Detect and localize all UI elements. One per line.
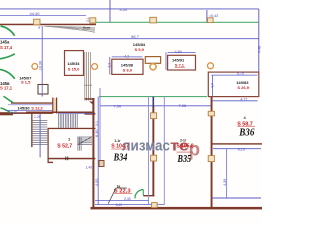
svg-text:S 15,0: S 15,0 — [68, 67, 80, 72]
svg-text:S 9,0: S 9,0 — [123, 67, 133, 72]
window W1 — [34, 19, 40, 25]
window x211 lower — [208, 156, 214, 162]
witness line x207 — [206, 10, 208, 22]
dimension line y39 — [0, 38, 259, 40]
svg-text:лизмас: лизмас — [122, 138, 170, 155]
stair upper flight treads — [59, 114, 78, 128]
stair lower flight treads — [78, 137, 93, 151]
jamb ticks — [65, 157, 67, 161]
dim line under wall — [8, 104, 52, 106]
room box 145/34 — [65, 51, 84, 76]
vert dim x166 — [165, 52, 167, 70]
svg-text:S 105,8: S 105,8 — [176, 143, 193, 149]
svg-text:1-1г: 1-1г — [114, 139, 121, 143]
door swing mid-left lower — [0, 69, 15, 78]
toilet bowl — [150, 64, 156, 70]
svg-text:145/34: 145/34 — [67, 61, 80, 66]
svg-text:В36: В36 — [238, 128, 254, 139]
left wall end piece — [0, 112, 13, 115]
svg-text:S 58,7: S 58,7 — [237, 122, 253, 128]
svg-text:Асик: Асик — [83, 26, 91, 30]
svg-text:4,59: 4,59 — [175, 50, 182, 54]
bottom thick wall — [91, 207, 263, 210]
dim 4.77 — [213, 100, 258, 102]
witness x148.5 — [148, 97, 150, 205]
svg-text:96,7: 96,7 — [131, 34, 140, 39]
vert dim x109.8 — [109, 57, 111, 75]
svg-text:4,7: 4,7 — [210, 83, 214, 88]
toilet cistern — [145, 57, 160, 64]
stair cut diagonal — [78, 137, 92, 145]
dim line y200.5 — [95, 200, 149, 202]
window W2 — [90, 18, 96, 23]
1a underline — [117, 187, 128, 189]
witness x226.6 — [226, 149, 228, 198]
svg-text:18,30: 18,30 — [39, 61, 43, 71]
svg-text:S 1,5: S 1,5 — [21, 80, 31, 85]
svg-text:44.40: 44.40 — [30, 11, 41, 16]
corridor wall piece upper — [85, 98, 95, 100]
vert dim x212.6 — [212, 75, 214, 96]
window x153 lower — [151, 155, 157, 161]
corridor wall piece lower — [85, 113, 96, 115]
dimension line 44.40 y15 — [0, 14, 86, 16]
svg-text:2,20: 2,20 — [11, 110, 17, 114]
svg-text:1,40: 1,40 — [86, 166, 93, 170]
partition wall x153 — [152, 106, 154, 196]
green corridor line — [99, 96, 207, 98]
svg-text:S 17,1: S 17,1 — [0, 86, 13, 91]
svg-text:2-1г: 2-1г — [180, 139, 187, 143]
wall stub corner — [48, 162, 54, 163]
column ring right — [208, 63, 214, 69]
window W3 — [150, 17, 157, 23]
lintel hatch wedge — [44, 26, 95, 33]
svg-text:4.20: 4.20 — [120, 7, 129, 12]
svg-text:S 17,4: S 17,4 — [0, 45, 13, 50]
window x211 upper — [208, 111, 214, 116]
partition top witness — [152, 97, 154, 107]
svg-text:S 22,3: S 22,3 — [114, 189, 132, 195]
door swing top-left — [1, 26, 15, 36]
room box 145/38 — [112, 59, 143, 74]
dim line left bottom — [5, 109, 52, 111]
stair inner wall — [48, 128, 49, 163]
svg-text:6,79: 6,79 — [237, 72, 244, 76]
stair top wall — [26, 112, 94, 114]
stair left wall — [31, 112, 32, 147]
dim 4.2 over 145/38 — [112, 56, 143, 58]
witness line x110 — [109, 0, 111, 22]
svg-text:145а: 145а — [0, 39, 10, 44]
svg-text:145/30: 145/30 — [17, 105, 30, 110]
vertical dim x42 — [41, 26, 43, 97]
svg-text:6,19: 6,19 — [238, 147, 245, 151]
witness through shaft — [41, 85, 43, 97]
window x153 upper — [151, 113, 157, 119]
left lower walls — [11, 102, 53, 103]
witness x164.3 — [163, 97, 165, 205]
svg-text:S 52,7: S 52,7 — [57, 144, 72, 150]
column ring mid — [92, 64, 98, 70]
door swing bottom-center — [135, 190, 143, 199]
dim 6.79 — [212, 74, 258, 76]
dimension line top y9 — [0, 8, 259, 10]
leader line — [108, 188, 116, 203]
svg-text:В34: В34 — [113, 151, 128, 163]
wall pier left — [52, 98, 53, 114]
dim line y198 — [212, 197, 262, 199]
svg-text:2,2: 2,2 — [107, 63, 111, 68]
main left wall x92 — [92, 98, 94, 208]
stair bottom wall — [48, 158, 96, 160]
stair flight left treads — [33, 120, 48, 144]
svg-text:4.48: 4.48 — [258, 46, 262, 53]
door square stair — [99, 161, 104, 167]
svg-text:3,0: 3,0 — [95, 121, 99, 126]
shaft wall lines — [84, 52, 92, 101]
svg-text:7,06: 7,06 — [178, 103, 187, 108]
svg-text:7,90: 7,90 — [113, 103, 122, 108]
svg-text:4,00: 4,00 — [95, 179, 99, 186]
B36 inner wall — [211, 143, 262, 144]
dim line y204.5 — [95, 204, 164, 206]
door swing mid-left upper — [0, 54, 15, 59]
top wall — [0, 24, 96, 26]
column ring left — [32, 64, 38, 70]
svg-text:В35: В35 — [177, 154, 192, 165]
window W4 — [208, 18, 214, 23]
room box 145/91 — [168, 55, 196, 70]
dim 6.19 — [213, 148, 261, 150]
witness x101 — [99, 88, 101, 160]
svg-text:S 9,9: S 9,9 — [135, 47, 145, 52]
svg-text:6,30: 6,30 — [95, 130, 99, 137]
svg-text:S 26,9: S 26,9 — [237, 85, 249, 90]
wall chamfer — [89, 102, 93, 105]
partition bottom wall — [144, 195, 155, 196]
B35 red underline — [177, 151, 194, 153]
svg-text:4: 4 — [244, 116, 246, 120]
door square bottom-center — [152, 203, 158, 208]
svg-text:S 104,7: S 104,7 — [111, 143, 129, 149]
stair landing line — [58, 112, 94, 114]
door swing lower-left leaf — [4, 96, 14, 103]
svg-text:S 12,2: S 12,2 — [31, 105, 43, 110]
room box 149/83 — [208, 72, 258, 97]
dim 7.90/7.06 line — [100, 105, 212, 107]
door swing lower-left arc — [1, 108, 12, 113]
stair upper flight walls — [48, 128, 96, 129]
svg-text:4,2: 4,2 — [124, 55, 129, 59]
svg-text:S 7,1: S 7,1 — [175, 62, 185, 67]
dim 4.59 over 145/91 — [168, 51, 196, 53]
shaft box — [38, 85, 48, 95]
stair dim vline x40 — [39, 114, 41, 158]
vert dim x98 — [97, 97, 99, 205]
svg-text:4,39: 4,39 — [223, 179, 227, 186]
witness line x259 — [258, 9, 260, 72]
green facade line top — [96, 21, 259, 23]
main right wall x211 — [211, 97, 213, 208]
svg-text:4,77: 4,77 — [240, 97, 247, 101]
